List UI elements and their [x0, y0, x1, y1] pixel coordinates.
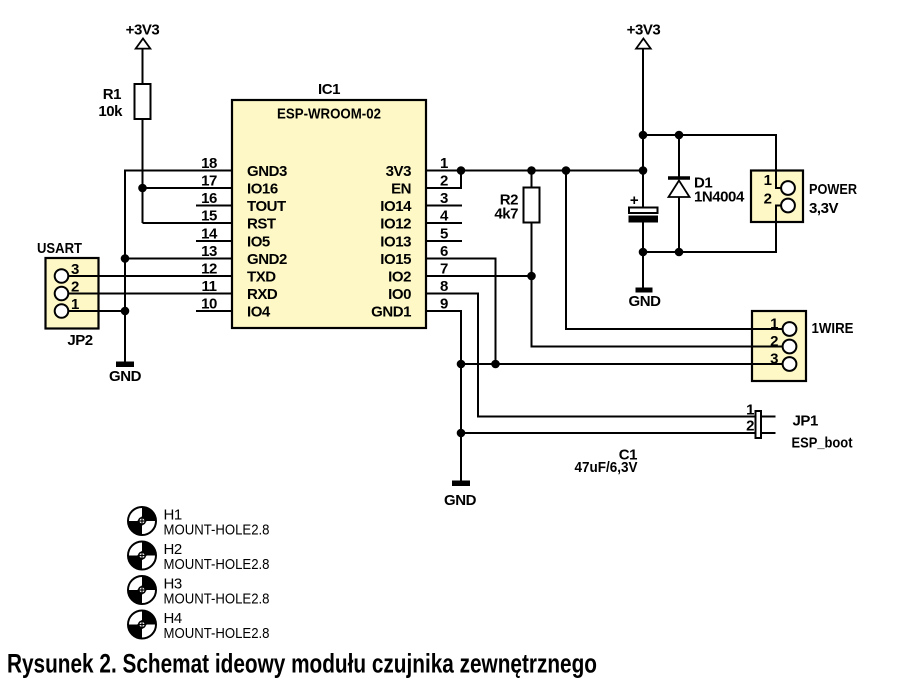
svg-text:+: +	[630, 192, 639, 209]
wire GND3	[125, 171, 232, 362]
connector JP2 USART	[37, 240, 93, 349]
svg-text:R1: R1	[103, 86, 121, 103]
svg-text:2: 2	[71, 279, 79, 296]
svg-text:MOUNT-HOLE2.8: MOUNT-HOLE2.8	[164, 556, 270, 573]
svg-text:JP2: JP2	[67, 332, 92, 349]
wire IO2	[426, 275, 532, 277]
svg-text:10k: 10k	[98, 103, 123, 120]
wire +3V3 main vertical	[642, 49, 644, 208]
wire R1 bottom to RST	[142, 119, 144, 223]
wire R2 bottom to IO2	[531, 223, 533, 277]
resistor R2	[494, 188, 539, 223]
svg-text:16: 16	[201, 190, 217, 207]
svg-text:IO12: IO12	[380, 216, 411, 233]
wire GND2	[125, 258, 232, 260]
svg-text:IO4: IO4	[247, 304, 271, 321]
svg-text:2: 2	[770, 333, 778, 350]
node cap top	[639, 166, 648, 175]
svg-text:RXD: RXD	[247, 286, 278, 303]
svg-text:2: 2	[746, 418, 754, 435]
capacitor C1	[629, 192, 659, 223]
svg-text:ESP-WROOM-02: ESP-WROOM-02	[277, 106, 381, 123]
node main top	[639, 131, 648, 140]
wire EN to 3V3	[426, 171, 461, 189]
wire D1 top	[678, 135, 680, 180]
svg-text:3,3V: 3,3V	[809, 200, 839, 217]
svg-text:18: 18	[201, 155, 217, 172]
wire IO16	[143, 187, 233, 189]
wire 3V3 net horizontal	[426, 170, 643, 172]
svg-text:1: 1	[440, 155, 448, 172]
svg-text:13: 13	[201, 243, 217, 260]
svg-text:USART: USART	[37, 240, 82, 257]
svg-text:1: 1	[71, 296, 79, 313]
svg-text:1N4004: 1N4004	[694, 189, 745, 206]
capacitor C1 value label	[575, 447, 638, 477]
svg-text:15: 15	[201, 208, 217, 225]
ground C1	[629, 288, 662, 311]
mount hole H2	[128, 541, 270, 573]
IC1 pin stubs right	[426, 206, 462, 242]
wire 3V3 to 1WIRE pin1	[566, 171, 790, 330]
connector 1WIRE	[770, 316, 853, 371]
svg-text:TOUT: TOUT	[247, 198, 286, 215]
svg-text:1WIRE: 1WIRE	[812, 320, 854, 337]
svg-text:MOUNT-HOLE2.8: MOUNT-HOLE2.8	[164, 522, 270, 539]
wire bottom to POWER pin2	[643, 206, 788, 253]
svg-text:GND: GND	[109, 368, 142, 385]
IC1 pin numbers right	[440, 155, 449, 313]
IC1 body	[232, 81, 426, 328]
svg-text:9: 9	[440, 296, 448, 313]
IC1 pin labels right	[371, 163, 412, 321]
svg-text:GND: GND	[444, 492, 477, 509]
svg-text:GND: GND	[629, 293, 662, 310]
svg-text:3: 3	[440, 190, 448, 207]
wire R2 top	[531, 171, 533, 188]
wire TXD	[62, 275, 233, 277]
svg-text:+3V3: +3V3	[126, 22, 160, 39]
svg-text:5: 5	[440, 226, 448, 243]
node JP1 pin2	[457, 429, 466, 438]
node GND2	[121, 254, 130, 263]
wire RXD	[62, 293, 233, 295]
wire C1 bottom	[642, 223, 644, 289]
node GND1 vertical / 1wire gnd	[457, 360, 466, 369]
svg-text:3: 3	[71, 261, 79, 278]
svg-text:4k7: 4k7	[494, 206, 518, 223]
svg-text:1: 1	[746, 402, 754, 419]
resistor R1	[98, 84, 150, 120]
node EN/3V3	[457, 166, 466, 175]
svg-text:TXD: TXD	[247, 269, 276, 286]
connector POWER body	[751, 171, 803, 223]
svg-text:2: 2	[764, 191, 772, 208]
svg-text:RST: RST	[247, 216, 276, 233]
svg-text:+3V3: +3V3	[627, 22, 661, 39]
svg-text:IO14: IO14	[380, 198, 412, 215]
svg-text:POWER: POWER	[809, 181, 857, 198]
svg-text:1: 1	[770, 316, 778, 333]
wire IO0 to JP1 pin1	[426, 294, 756, 417]
svg-text:GND1: GND1	[371, 304, 411, 321]
svg-text:MOUNT-HOLE2.8: MOUNT-HOLE2.8	[164, 591, 270, 608]
svg-text:IO5: IO5	[247, 234, 270, 251]
power +3V3 left	[126, 22, 160, 49]
node R2 top	[527, 166, 536, 175]
wire top to POWER pin1	[643, 135, 788, 188]
IC1 pin labels left	[247, 163, 287, 321]
node cap bottom	[639, 248, 648, 257]
node IO2/R2	[527, 272, 536, 281]
connector 1WIRE body	[752, 311, 806, 381]
node JP2 pin1	[121, 307, 130, 316]
connector JP2 body	[46, 258, 99, 329]
svg-text:IC1: IC1	[318, 81, 340, 98]
svg-text:JP1: JP1	[793, 413, 818, 430]
wire GND1 down	[426, 311, 461, 481]
node IO15/GND1WIRE	[491, 360, 500, 369]
svg-text:12: 12	[201, 261, 217, 278]
svg-text:2: 2	[440, 173, 448, 190]
mount hole H3	[128, 576, 270, 608]
node D1 top	[675, 131, 684, 140]
svg-text:14: 14	[201, 226, 218, 243]
connector POWER	[764, 172, 858, 217]
svg-text:Rysunek 2. Schemat ideowy modu: Rysunek 2. Schemat ideowy modułu czujnik…	[7, 649, 597, 679]
svg-text:47uF/6,3V: 47uF/6,3V	[575, 459, 638, 476]
IC1 pin stubs left	[196, 206, 232, 312]
svg-text:ESP_boot: ESP_boot	[792, 435, 853, 452]
node D1 bottom	[675, 248, 684, 257]
diode D1	[668, 175, 745, 206]
svg-text:IO13: IO13	[380, 234, 411, 251]
svg-text:IO2: IO2	[388, 269, 411, 286]
svg-text:7: 7	[440, 261, 448, 278]
svg-text:IO16: IO16	[247, 181, 278, 198]
svg-text:1: 1	[764, 172, 772, 189]
mount hole H4	[128, 610, 270, 642]
svg-text:6: 6	[440, 243, 448, 260]
svg-text:4: 4	[440, 208, 449, 225]
svg-text:11: 11	[202, 278, 217, 295]
wire D1 bottom	[678, 197, 680, 252]
svg-text:10: 10	[201, 296, 217, 313]
ground JP2	[109, 362, 142, 386]
ground GND1	[444, 481, 477, 510]
svg-text:IO0: IO0	[388, 286, 411, 303]
svg-text:8: 8	[440, 278, 448, 295]
wire RST	[143, 222, 233, 224]
svg-text:17: 17	[201, 173, 217, 190]
wire +3V3 to R1	[142, 49, 144, 84]
svg-text:3V3: 3V3	[386, 163, 411, 180]
svg-text:IO15: IO15	[380, 251, 411, 268]
wire JP2 pin1 to GND	[62, 310, 126, 312]
connector JP1	[746, 402, 852, 452]
mount hole H1	[128, 507, 270, 539]
IC1 pin numbers left	[201, 155, 218, 313]
svg-text:MOUNT-HOLE2.8: MOUNT-HOLE2.8	[164, 625, 270, 642]
node 1WIRE vcc riser	[562, 166, 571, 175]
node R1/IO16	[138, 184, 147, 193]
power +3V3 right	[627, 22, 661, 49]
wire IO15	[426, 259, 496, 365]
svg-text:EN: EN	[391, 181, 411, 198]
wire GND to 1WIRE pin3	[461, 363, 790, 365]
wire JP1 pin2	[461, 432, 756, 434]
svg-text:3: 3	[770, 351, 778, 368]
wire IO2 to 1WIRE pin2	[532, 276, 790, 347]
svg-text:GND3: GND3	[247, 163, 287, 180]
svg-text:GND2: GND2	[247, 251, 287, 268]
